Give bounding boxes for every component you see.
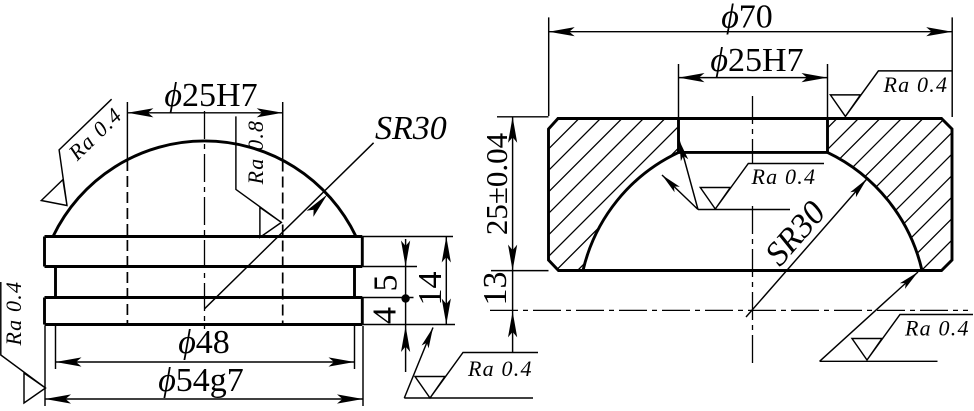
svg-text:5: 5 [368, 275, 405, 292]
svg-text:14: 14 [412, 272, 449, 306]
svg-text:ϕ25H7: ϕ25H7 [164, 77, 257, 114]
svg-text:Ra 0.4: Ra 0.4 [751, 164, 817, 189]
svg-text:ϕ48: ϕ48 [178, 324, 230, 361]
svg-text:Ra 0.4: Ra 0.4 [467, 356, 533, 381]
svg-text:13: 13 [477, 272, 514, 306]
svg-text:SR30: SR30 [375, 110, 447, 147]
svg-text:Ra 0.8: Ra 0.8 [243, 120, 268, 186]
svg-text:Ra 0.4: Ra 0.4 [883, 72, 949, 97]
svg-text:Ra 0.4: Ra 0.4 [904, 315, 970, 340]
svg-text:ϕ25H7: ϕ25H7 [710, 42, 803, 79]
svg-text:4: 4 [367, 307, 404, 324]
svg-text:25±0.04: 25±0.04 [479, 132, 514, 235]
svg-text:ϕ70: ϕ70 [721, 0, 773, 36]
svg-text:Ra 0.4: Ra 0.4 [1, 281, 26, 347]
svg-text:ϕ54g7: ϕ54g7 [158, 362, 244, 399]
